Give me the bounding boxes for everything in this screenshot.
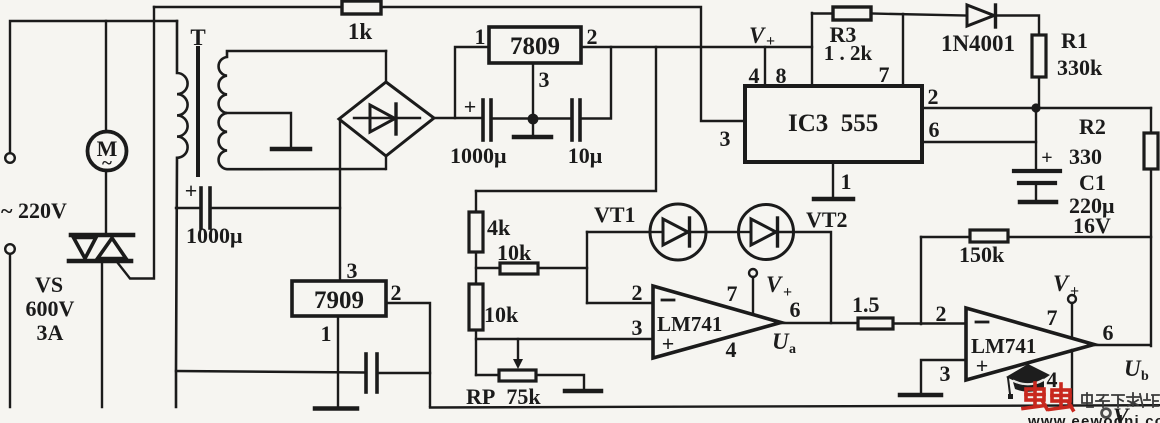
wire cap to node xyxy=(493,117,531,119)
wire triac gate xyxy=(117,7,154,279)
resistor R3 xyxy=(833,7,871,20)
ground 7909 pin1 xyxy=(315,406,357,411)
watermark graduation cap icon xyxy=(1006,364,1050,399)
wire feedback node vertical xyxy=(920,237,922,324)
svg-text:+: + xyxy=(766,33,775,50)
wire negative supply rail bottom xyxy=(430,405,1160,407)
svg-text:a: a xyxy=(789,342,796,357)
wire 10k bottom junction xyxy=(475,330,477,375)
wire cap to pin2 column xyxy=(379,372,430,374)
wire 7909 pin1 down xyxy=(337,316,339,407)
triac VS xyxy=(69,235,133,261)
bridge rectifier xyxy=(339,82,434,156)
svg-text:330k: 330k xyxy=(1057,55,1103,80)
svg-text:1: 1 xyxy=(321,321,332,346)
wire triac MT2 down xyxy=(101,263,103,407)
ground secondary center tap xyxy=(272,147,310,152)
svg-text:2: 2 xyxy=(632,280,643,305)
wire R2 down to Ub output xyxy=(1150,169,1152,346)
op-amp U2 LM741 xyxy=(966,308,1094,380)
op-amp U1 LM741 xyxy=(653,286,781,358)
wire down to R2 xyxy=(1150,108,1152,133)
svg-text:VT1: VT1 xyxy=(594,202,636,227)
svg-text:VT2: VT2 xyxy=(806,207,848,232)
svg-text:1000μ: 1000μ xyxy=(186,223,243,248)
svg-text:+: + xyxy=(976,353,989,378)
svg-text:2: 2 xyxy=(391,280,402,305)
wire node to 10u xyxy=(533,117,570,119)
potentiometer RP wiper arrow xyxy=(517,339,519,361)
wire to op2 pin2 xyxy=(893,322,966,324)
ground C1 xyxy=(1020,200,1056,205)
wire 7909 pin2 to negative rail xyxy=(386,303,430,406)
wire 555 pin2 to node A xyxy=(922,107,1151,109)
terminal mains N xyxy=(5,244,15,254)
watermark red character chong 1 xyxy=(1023,383,1047,409)
svg-text:6: 6 xyxy=(790,297,801,322)
svg-text:10k: 10k xyxy=(497,240,532,265)
svg-text:7: 7 xyxy=(1047,305,1058,330)
wire 10k horizontal branch xyxy=(476,267,500,269)
wire 150k to output column xyxy=(1008,236,1151,238)
wire bridge minus output down to 7909 xyxy=(339,119,341,281)
svg-text:3: 3 xyxy=(940,361,951,386)
wire negative net horizontal xyxy=(176,371,364,373)
resistor 1k xyxy=(342,1,381,14)
wire cap leads xyxy=(176,207,199,209)
svg-text:RP 75k: RP 75k xyxy=(466,384,541,409)
ground RP xyxy=(565,389,601,394)
svg-text:2: 2 xyxy=(928,84,939,109)
svg-text:1.5: 1.5 xyxy=(852,292,880,317)
svg-text:+: + xyxy=(464,94,477,119)
svg-text:6: 6 xyxy=(929,117,940,142)
potentiometer RP body xyxy=(499,370,536,381)
svg-text:3: 3 xyxy=(632,315,643,340)
capacitor 1000u (rectifier filter) xyxy=(483,100,491,140)
svg-text:1: 1 xyxy=(841,169,852,194)
resistor 1.5 xyxy=(858,318,893,329)
svg-text:3A: 3A xyxy=(37,320,64,345)
svg-text:1000μ: 1000μ xyxy=(450,143,507,168)
wire bridge plus output xyxy=(434,117,481,119)
wire V+ up to R3 and down to 555 xyxy=(811,13,813,86)
svg-text:3: 3 xyxy=(347,258,358,283)
svg-text:3: 3 xyxy=(720,126,731,151)
wire motor to triac xyxy=(105,170,107,233)
wire bridge bottom xyxy=(385,156,387,169)
motor M1 xyxy=(88,132,127,171)
transformer core xyxy=(196,48,200,175)
wire RP right to ground xyxy=(536,375,584,389)
diode 1N4001 xyxy=(967,5,996,27)
wire mains L up and right xyxy=(10,21,177,153)
transformer secondary winding xyxy=(219,51,386,169)
wire op2 pin7 V+ xyxy=(1071,303,1073,338)
wire R3 left lead xyxy=(812,12,833,14)
svg-text:2: 2 xyxy=(936,301,947,326)
wire 10k to op-amp inverting node xyxy=(538,267,587,269)
wire bridge top to secondary xyxy=(385,51,387,82)
wire mains N down xyxy=(9,255,11,407)
resistor 10k horizontal xyxy=(500,263,538,274)
watermark red character chong 2 xyxy=(1049,384,1073,410)
wire node A to C1 xyxy=(1035,108,1037,169)
wire motor branch xyxy=(105,21,107,132)
wire op1 pin2 xyxy=(587,302,653,304)
svg-text:R1: R1 xyxy=(1061,28,1088,53)
wire 555 pin6 to C1 xyxy=(922,141,1036,143)
svg-text:150k: 150k xyxy=(959,242,1005,267)
ic IC3 555 xyxy=(745,86,922,162)
wire op1 output xyxy=(781,322,858,324)
wire diode to R1 xyxy=(998,16,1039,36)
resistor R2 xyxy=(1144,133,1158,169)
svg-text:R2: R2 xyxy=(1079,114,1106,139)
svg-text:U: U xyxy=(1124,356,1142,381)
svg-text:1k: 1k xyxy=(348,19,373,44)
wire 7809 pin1 branch xyxy=(455,47,489,118)
resistor 10k vertical xyxy=(469,284,483,330)
wire 555 pin1 xyxy=(832,162,834,198)
wire secondary center tap xyxy=(227,113,291,147)
wire top rail left segment xyxy=(154,6,342,8)
svg-text:4k: 4k xyxy=(487,215,511,240)
wire RP left lead xyxy=(476,374,499,376)
wire inverting node vertical xyxy=(586,232,588,303)
ground op2 pin3 xyxy=(900,393,941,398)
resistor R1 xyxy=(1032,35,1046,77)
wire R1 to node xyxy=(1038,77,1040,108)
svg-text:IC3 555: IC3 555 xyxy=(788,110,878,137)
wire C1 to ground xyxy=(1035,185,1037,200)
capacitor 10u xyxy=(572,100,580,140)
wire into 4k xyxy=(475,191,477,212)
svg-text:4: 4 xyxy=(726,337,737,362)
capacitor 7909 output xyxy=(366,354,377,392)
node A junction xyxy=(1031,103,1040,112)
capacitor 1000u (negative rail filter) xyxy=(201,188,210,228)
svg-text:6: 6 xyxy=(1103,320,1114,345)
terminal V- output xyxy=(1102,409,1111,418)
svg-text:V: V xyxy=(766,272,783,297)
transformer primary winding xyxy=(176,21,188,407)
wire +9V rail xyxy=(581,46,812,48)
svg-text:+: + xyxy=(1041,147,1052,169)
svg-text:16V: 16V xyxy=(1073,213,1111,238)
svg-text:+: + xyxy=(185,178,198,203)
svg-text:330: 330 xyxy=(1069,144,1102,169)
wire op2 pin4 to negative rail xyxy=(1071,350,1073,406)
svg-text:1: 1 xyxy=(475,24,486,49)
wire 555 pins 4,8 stub xyxy=(764,47,766,86)
svg-text:7: 7 xyxy=(879,62,890,87)
wire node to VT1 xyxy=(587,231,650,233)
svg-text:3: 3 xyxy=(539,67,550,92)
node ground mid xyxy=(528,114,539,125)
svg-text:V: V xyxy=(749,23,766,48)
wire R3 to diode xyxy=(871,14,967,16)
resistor 150k xyxy=(970,230,1008,242)
resistor 4k xyxy=(469,212,483,252)
capacitor C1 xyxy=(1014,171,1060,183)
wire 4k to 10k xyxy=(475,252,477,284)
wire top rail right segment xyxy=(381,7,745,121)
watermark site name glyphs xyxy=(1082,393,1159,407)
svg-text:VS: VS xyxy=(35,272,63,297)
wire op2 output xyxy=(1094,344,1149,346)
svg-text:V: V xyxy=(1053,271,1070,296)
svg-text:C1: C1 xyxy=(1079,170,1106,195)
wire 555 pin7 stub xyxy=(902,14,904,86)
terminal mains L xyxy=(5,153,15,163)
ground 7809 common xyxy=(532,119,534,135)
svg-text:b: b xyxy=(1141,369,1149,384)
wire feedback to 150k xyxy=(921,236,970,238)
svg-text:1N4001: 1N4001 xyxy=(941,31,1015,56)
svg-text:2: 2 xyxy=(587,24,598,49)
svg-text:7809: 7809 xyxy=(510,33,560,60)
wire VT2 to op1 output xyxy=(793,232,831,323)
diode VT2 xyxy=(739,205,794,260)
regulator 7809 xyxy=(489,27,581,63)
svg-text:10k: 10k xyxy=(484,302,519,327)
svg-text:+: + xyxy=(662,331,675,356)
svg-text:600V: 600V xyxy=(26,296,75,321)
svg-text:7909: 7909 xyxy=(314,287,364,314)
svg-text:7: 7 xyxy=(727,281,738,306)
wire VT1 to VT2 xyxy=(706,231,739,233)
wire 7809 pin3 to ground node xyxy=(532,63,534,114)
wire to op1 pin3 xyxy=(476,338,653,340)
wire op2 pin3 to ground xyxy=(921,360,966,393)
ground 555 pin1 xyxy=(814,197,853,202)
regulator 7909 xyxy=(292,281,386,316)
wire V+ down to divider xyxy=(476,47,656,191)
wire 10u up to +9V rail xyxy=(582,47,611,119)
svg-text:U: U xyxy=(772,329,790,354)
svg-text:10μ: 10μ xyxy=(568,143,603,168)
svg-text:www.eewodni.com: www.eewodni.com xyxy=(1027,413,1160,423)
wire op1 pin7 V+ xyxy=(752,277,754,314)
svg-text:~ 220V: ~ 220V xyxy=(1,198,67,223)
diode VT1 xyxy=(650,204,706,260)
svg-text:+: + xyxy=(1070,283,1079,300)
svg-text:1 . 2k: 1 . 2k xyxy=(824,41,873,65)
